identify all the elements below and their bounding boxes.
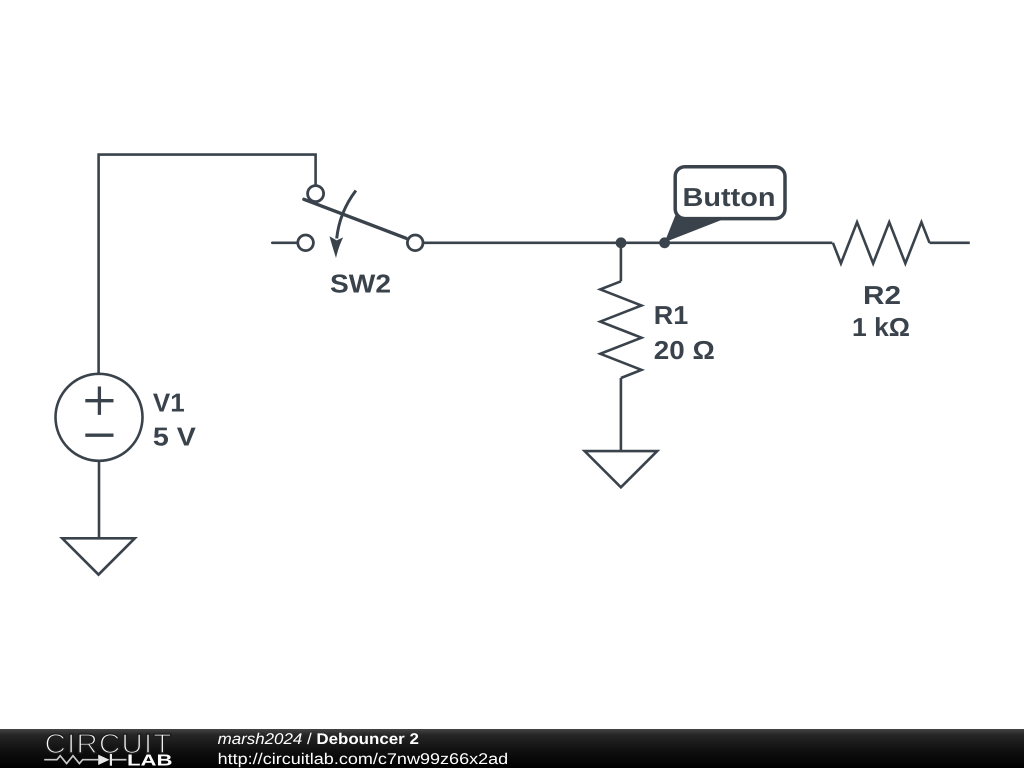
resistor R2	[833, 222, 930, 263]
svg-text:V1: V1	[153, 388, 185, 418]
svg-text:http://circuitlab.com/c7nw99z6: http://circuitlab.com/c7nw99z66x2ad	[218, 751, 509, 768]
label V1 5 V	[153, 388, 197, 452]
annotation callout Button	[665, 167, 785, 243]
svg-text:SW2: SW2	[330, 269, 391, 299]
svg-text:Button: Button	[683, 182, 776, 212]
SW2 actuation arc	[337, 191, 356, 239]
ground below R1	[585, 451, 658, 487]
wire from V1 top to switch top terminal	[99, 155, 316, 374]
node junction at R1	[616, 237, 627, 248]
switch SW2	[272, 186, 423, 258]
label R2 1 kΩ	[852, 280, 910, 342]
SW2 right terminal	[407, 235, 423, 251]
SW2 left terminal	[298, 235, 314, 251]
svg-text:marsh2024 / Debouncer 2: marsh2024 / Debouncer 2	[218, 731, 419, 748]
svg-text:20 Ω: 20 Ω	[654, 335, 715, 365]
node Button anchor	[659, 237, 670, 248]
CircuitLab logo resistor-diode glyph	[44, 754, 126, 766]
svg-text:LAB: LAB	[127, 753, 173, 768]
svg-text:R2: R2	[863, 280, 901, 310]
wire stub to SW2 left throw	[272, 242, 297, 245]
svg-text:R1: R1	[654, 300, 689, 330]
wire from V1 bottom to ground	[98, 461, 101, 539]
svg-text:1 kΩ: 1 kΩ	[852, 312, 910, 342]
wire from SW2 to R2	[423, 242, 833, 245]
SW2 blade	[304, 199, 406, 238]
resistor R1	[600, 243, 641, 451]
SW2 top terminal	[308, 186, 324, 202]
wire from R2 to right	[930, 242, 970, 245]
ground below V1	[62, 538, 135, 574]
voltage source V1	[56, 374, 143, 461]
svg-text:5 V: 5 V	[153, 422, 197, 452]
label R1 20 Ω	[654, 300, 715, 365]
SW2 arrow head	[330, 236, 344, 258]
